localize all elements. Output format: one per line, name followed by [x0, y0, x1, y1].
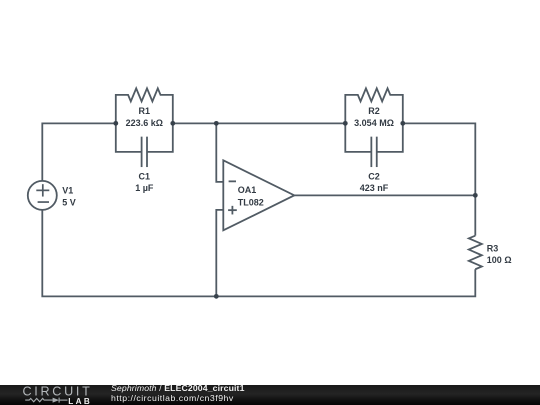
- svg-text:5 V: 5 V: [62, 197, 76, 207]
- capacitor C1: [116, 123, 173, 167]
- capacitor C2: [345, 123, 403, 167]
- svg-text:V1: V1: [62, 185, 73, 195]
- wire: [216, 210, 223, 297]
- footer url line 2: [111, 394, 234, 403]
- wire: [474, 195, 476, 235]
- node: junction dot: [113, 121, 118, 126]
- svg-text:R3: R3: [487, 243, 499, 253]
- svg-text:223.6 kΩ: 223.6 kΩ: [126, 118, 163, 128]
- svg-text:423 nF: 423 nF: [360, 183, 389, 193]
- wire: [294, 194, 475, 196]
- svg-text:TL082: TL082: [238, 197, 264, 207]
- resistor R1: [116, 88, 173, 123]
- svg-text:R2: R2: [368, 106, 380, 116]
- footer bar: [0, 385, 540, 405]
- resistor R2: [345, 88, 403, 123]
- wire: [216, 123, 223, 182]
- node: junction dot: [400, 121, 405, 126]
- footer title line 1: [111, 384, 245, 393]
- node: junction dot: [343, 121, 348, 126]
- svg-text:100 Ω: 100 Ω: [487, 255, 512, 265]
- op-amp OA1: [223, 160, 294, 230]
- svg-text:R1: R1: [139, 106, 151, 116]
- wire: [403, 123, 476, 195]
- wire: [42, 210, 475, 297]
- svg-text:1 µF: 1 µF: [135, 183, 154, 193]
- node: junction dot: [214, 294, 219, 299]
- CircuitLab logo: [0, 385, 100, 405]
- svg-text:OA1: OA1: [238, 185, 257, 195]
- node: junction dot: [170, 121, 175, 126]
- node: junction dot: [214, 121, 219, 126]
- voltage source V1: [28, 181, 57, 210]
- svg-text:3.054 MΩ: 3.054 MΩ: [354, 118, 394, 128]
- wire: [173, 122, 345, 124]
- svg-text:C2: C2: [368, 171, 380, 181]
- node: junction dot: [473, 193, 478, 198]
- svg-text:LAB: LAB: [68, 397, 92, 405]
- wire: [42, 123, 116, 181]
- svg-text:C1: C1: [139, 171, 151, 181]
- resistor R3: [469, 236, 482, 270]
